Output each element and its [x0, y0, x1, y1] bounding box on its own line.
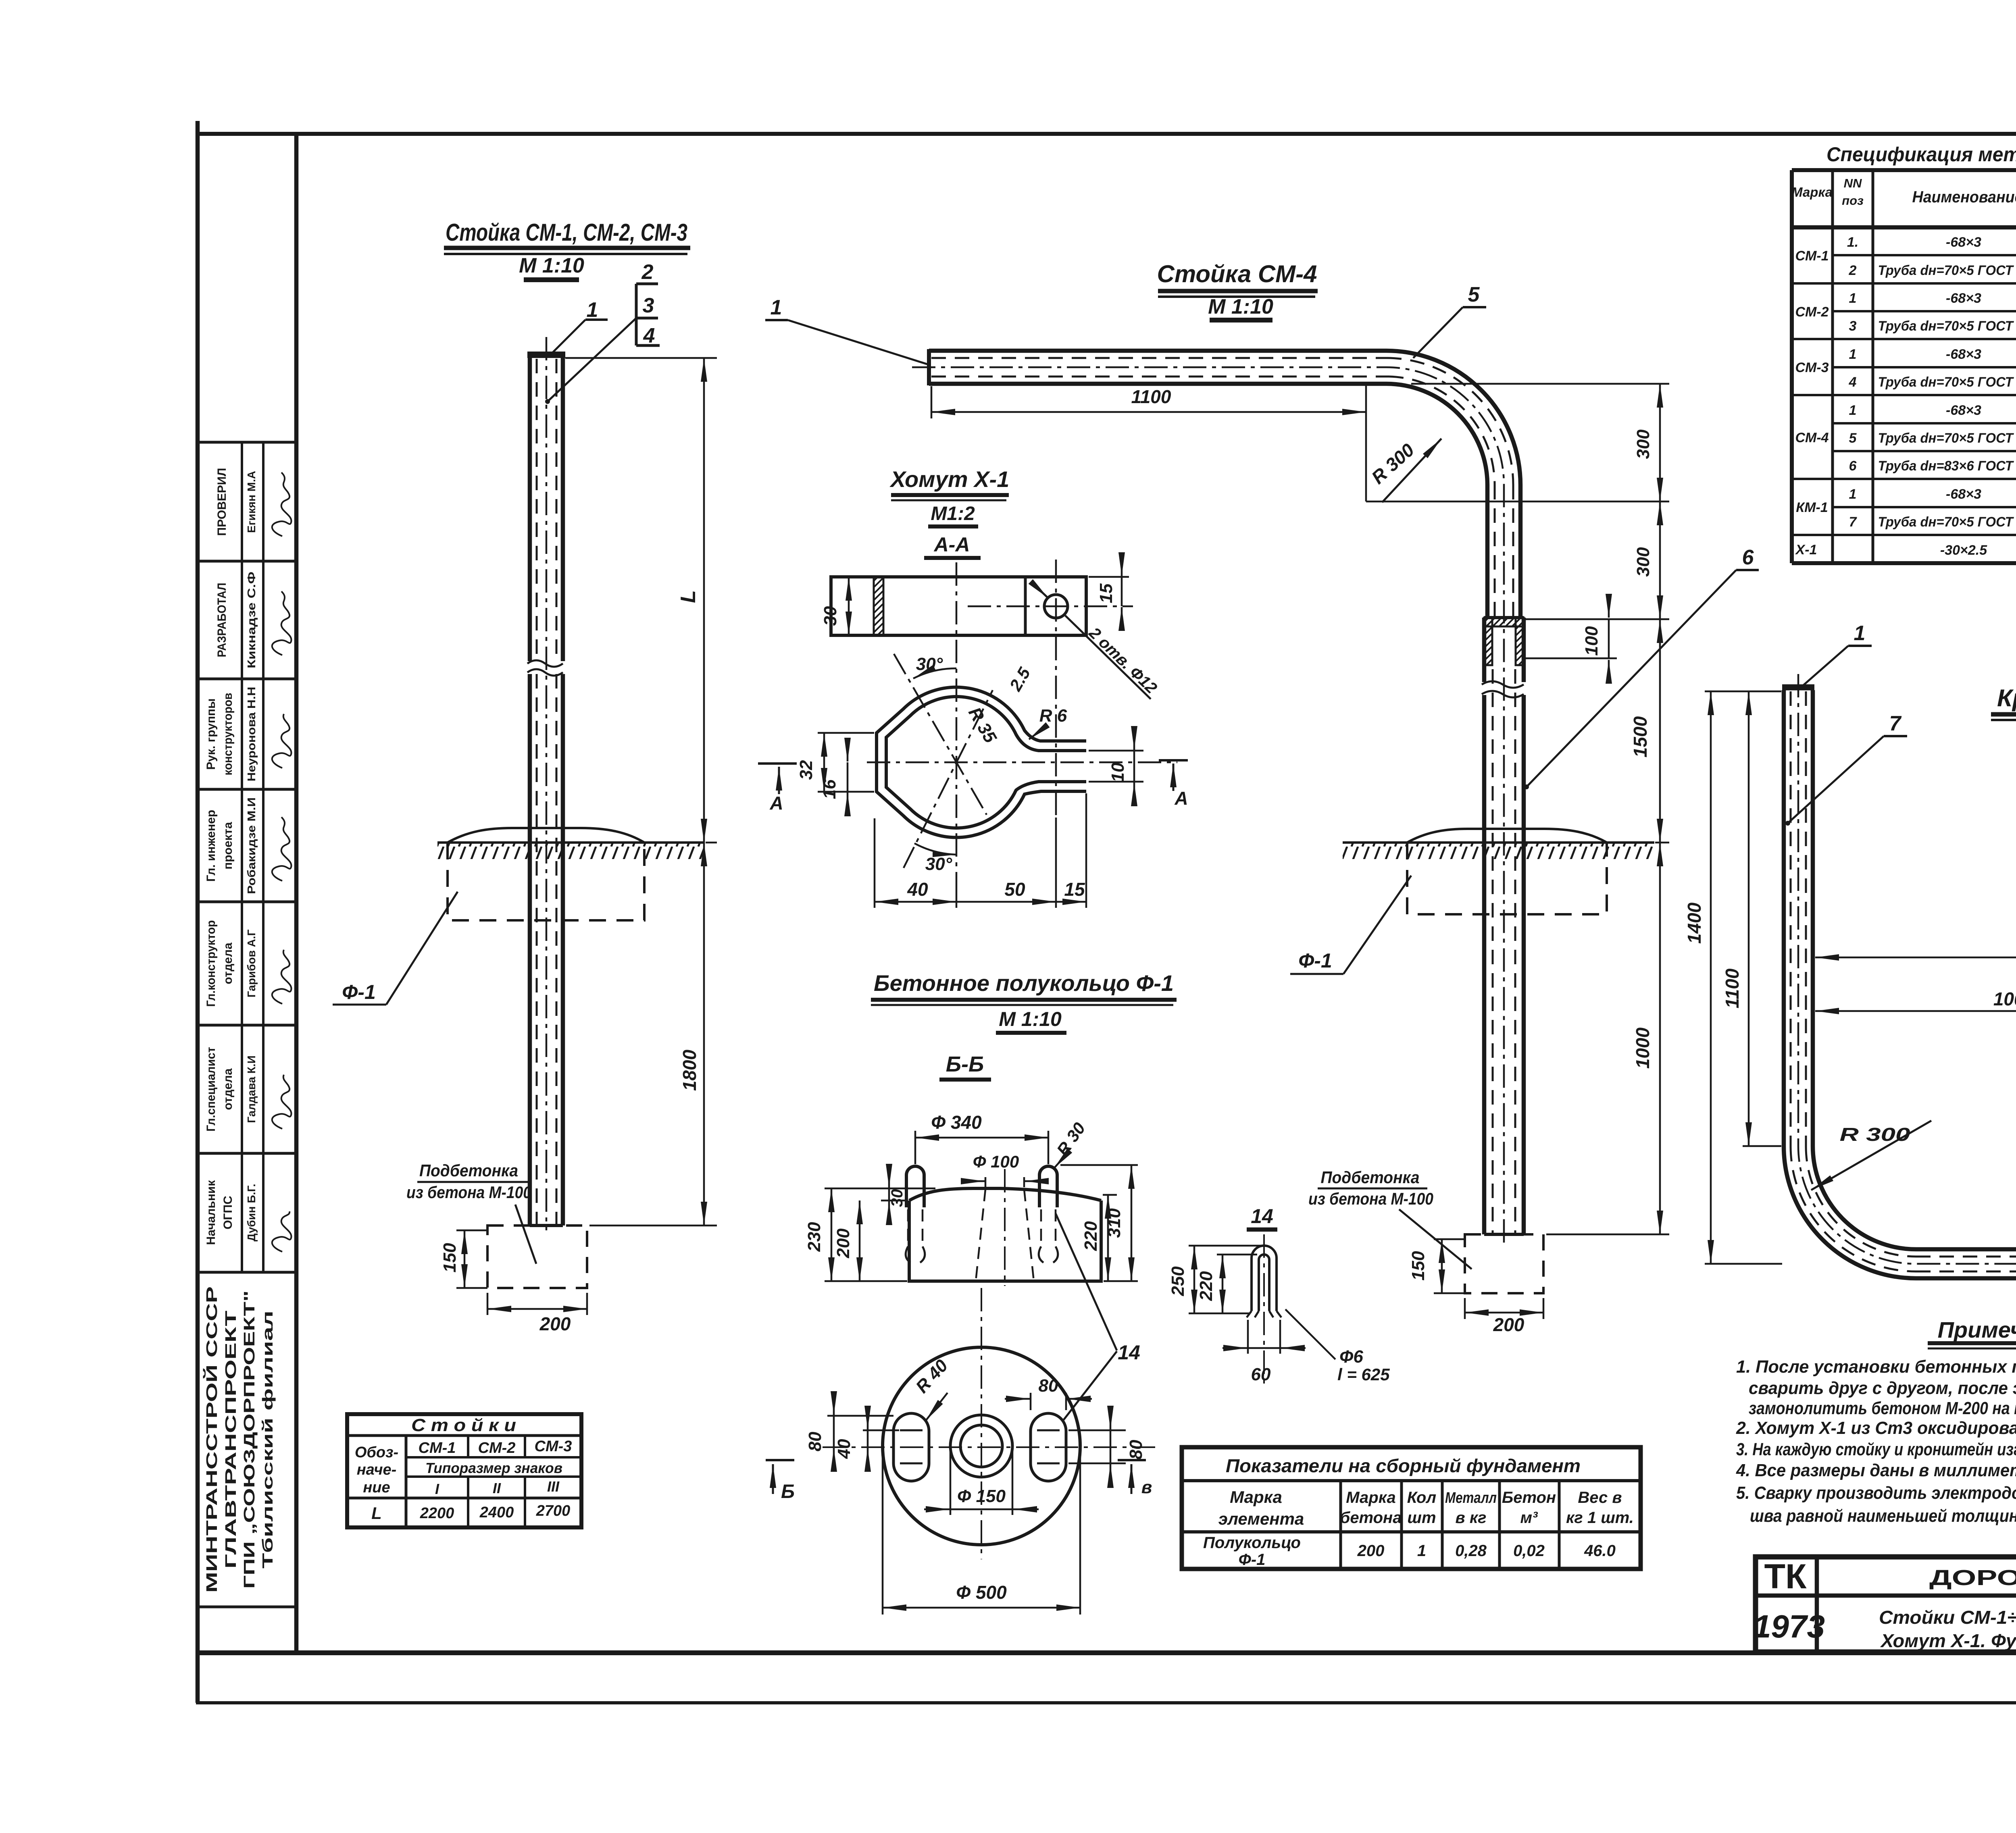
svg-text:сварить друг с другом, после э: сварить друг с другом, после этого пазы …: [1749, 1378, 2016, 1398]
svg-text:Подбетонка: Подбетонка: [419, 1161, 518, 1180]
svg-text:60: 60: [1251, 1365, 1271, 1384]
svg-text:1: 1: [1849, 487, 1857, 502]
svg-text:поз: поз: [1842, 193, 1864, 208]
svg-text:II: II: [493, 1480, 501, 1496]
svg-text:5: 5: [1468, 283, 1480, 306]
svg-text:КМ-1: КМ-1: [1796, 500, 1828, 515]
svg-text:3. На каждую стойку и кронштей: 3. На каждую стойку и кронштейн изготови…: [1736, 1440, 2016, 1459]
svg-text:3: 3: [1849, 318, 1857, 334]
svg-text:80: 80: [1126, 1440, 1146, 1459]
svg-text:2200: 2200: [420, 1505, 454, 1522]
svg-text:в кг: в кг: [1456, 1509, 1487, 1527]
svg-text:NN: NN: [1844, 176, 1862, 190]
svg-text:СМ-2: СМ-2: [1795, 304, 1829, 320]
svg-text:L: L: [371, 1504, 382, 1523]
svg-text:МИНТРАНССТРОЙ СССР: МИНТРАНССТРОЙ СССР: [202, 1286, 221, 1593]
svg-text:Ф 100: Ф 100: [973, 1152, 1019, 1171]
svg-text:Тбилисский филиал: Тбилисский филиал: [259, 1311, 276, 1569]
svg-text:Кронштейн КМ-1: Кронштейн КМ-1: [1997, 685, 2016, 712]
svg-text:200: 200: [1493, 1314, 1524, 1335]
svg-text:R 6: R 6: [1039, 706, 1067, 726]
svg-text:Труба dн=70×5 ГОСТ 8732-70: Труба dн=70×5 ГОСТ 8732-70: [1878, 318, 2016, 334]
svg-text:1: 1: [1854, 622, 1866, 645]
svg-text:Б-Б: Б-Б: [946, 1052, 984, 1076]
svg-text:Ф 500: Ф 500: [956, 1582, 1007, 1603]
svg-text:3: 3: [643, 294, 654, 317]
svg-text:7: 7: [1849, 514, 1858, 530]
svg-text:СМ-3: СМ-3: [535, 1438, 572, 1455]
svg-text:СМ-4: СМ-4: [1795, 430, 1829, 445]
svg-text:Вес в: Вес в: [1578, 1489, 1622, 1506]
svg-text:2. Хомут Х-1 из Ст3 оксидир: 2. Хомут Х-1 из Ст3 оксидировать.: [1736, 1418, 2016, 1438]
svg-text:5. Сварку производить электрод: 5. Сварку производить электродом Э42 ГОС…: [1736, 1483, 2016, 1503]
svg-text:ние: ние: [363, 1479, 390, 1496]
svg-text:150: 150: [1408, 1251, 1428, 1281]
svg-text:ДОРОЖНЫЕ ЗНАКИ: ДОРОЖНЫЕ ЗНАКИ: [1929, 1566, 2016, 1590]
svg-text:-68×3: -68×3: [1946, 487, 1981, 502]
svg-text:230: 230: [804, 1222, 824, 1252]
svg-text:Металл: Металл: [1445, 1490, 1497, 1506]
svg-text:2 отв. Ф12: 2 отв. Ф12: [1085, 624, 1160, 697]
svg-text:м³: м³: [1520, 1509, 1539, 1527]
svg-text:I: I: [435, 1481, 439, 1497]
svg-text:Труба dн=70×5 ГОСТ 8732-70: Труба dн=70×5 ГОСТ 8732-70: [1878, 263, 2016, 278]
svg-text:Ф-1: Ф-1: [1239, 1551, 1266, 1569]
svg-text:7: 7: [1889, 712, 1902, 735]
svg-text:30: 30: [888, 1189, 906, 1207]
svg-text:1: 1: [587, 298, 598, 322]
svg-text:-68×3: -68×3: [1946, 403, 1981, 418]
svg-text:40: 40: [834, 1439, 854, 1459]
svg-text:отдела: отдела: [221, 1068, 235, 1110]
svg-text:220: 220: [1196, 1271, 1216, 1301]
svg-text:Рук. группы: Рук. группы: [204, 698, 218, 770]
svg-text:R 30: R 30: [1053, 1119, 1089, 1159]
svg-text:Б: Б: [781, 1481, 795, 1502]
svg-text:Спецификация металла Ст 3 ГОС: Спецификация металла Ст 3 ГОСТ 380-71: [1826, 143, 2016, 166]
svg-text:1973: 1973: [1753, 1608, 1825, 1644]
svg-text:1: 1: [1849, 291, 1857, 306]
svg-text:300: 300: [1633, 429, 1653, 459]
svg-text:Кикнадзе С.Ф: Кикнадзе С.Ф: [245, 572, 258, 668]
svg-text:Неуронова Н.Н: Неуронова Н.Н: [245, 687, 258, 782]
svg-text:150: 150: [440, 1243, 460, 1273]
svg-text:Ф-1: Ф-1: [342, 981, 376, 1003]
svg-text:14: 14: [1251, 1205, 1273, 1228]
svg-text:Марка: Марка: [1346, 1489, 1396, 1506]
svg-text:0,28: 0,28: [1455, 1542, 1487, 1560]
svg-text:46.0: 46.0: [1584, 1542, 1616, 1560]
svg-text:6: 6: [1849, 458, 1857, 474]
svg-text:М 1:10: М 1:10: [999, 1008, 1062, 1030]
svg-text:-68×3: -68×3: [1946, 347, 1981, 362]
svg-text:R 300: R 300: [1840, 1124, 1911, 1145]
svg-text:4: 4: [1849, 375, 1857, 390]
svg-text:А: А: [1174, 788, 1188, 809]
svg-text:2: 2: [641, 260, 654, 284]
svg-text:Наименование: Наименование: [1912, 188, 2016, 206]
svg-text:1100: 1100: [1131, 386, 1171, 407]
svg-text:1000: 1000: [1993, 988, 2016, 1009]
svg-text:2.5: 2.5: [1006, 664, 1034, 694]
svg-text:Марка: Марка: [1791, 185, 1833, 200]
svg-text:элемента: элемента: [1218, 1509, 1304, 1528]
svg-text:кг 1 шт.: кг 1 шт.: [1566, 1509, 1634, 1527]
svg-text:300: 300: [1633, 547, 1653, 577]
svg-text:Гл. инженер: Гл. инженер: [204, 810, 218, 882]
svg-text:4. Все размеры даны в миллимет: 4. Все размеры даны в миллиметрах.: [1736, 1461, 2016, 1480]
svg-text:отдела: отдела: [221, 943, 235, 984]
svg-text:А: А: [769, 793, 783, 814]
svg-text:1500: 1500: [1630, 716, 1651, 757]
svg-text:проекта: проекта: [221, 822, 235, 870]
svg-text:Стойка СМ-1, СМ-2, СМ-3: Стойка СМ-1, СМ-2, СМ-3: [446, 219, 687, 246]
svg-text:1: 1: [771, 296, 782, 319]
svg-text:С т о й к и: С т о й к и: [411, 1415, 516, 1435]
svg-text:100: 100: [1582, 626, 1602, 656]
svg-text:Робакидзе М.И: Робакидзе М.И: [245, 797, 258, 894]
svg-text:4: 4: [643, 324, 655, 347]
svg-text:Галдава К.И: Галдава К.И: [245, 1055, 258, 1123]
svg-text:Примечания: Примечания: [1938, 1317, 2016, 1342]
svg-text:шва равной наименьшей толщине: шва равной наименьшей толщине свариваемы…: [1750, 1506, 2016, 1526]
svg-text:бетона: бетона: [1340, 1509, 1402, 1527]
svg-text:1100: 1100: [1722, 968, 1743, 1008]
svg-text:Труба dн=70×5 ГОСТ 8732-70: Труба dн=70×5 ГОСТ 8732-70: [1878, 514, 2016, 530]
svg-text:из бетона М-100: из бетона М-100: [1308, 1189, 1433, 1208]
svg-text:наче-: наче-: [357, 1461, 397, 1478]
svg-text:220: 220: [1081, 1221, 1101, 1251]
svg-text:5: 5: [1849, 431, 1857, 446]
svg-text:Начальник: Начальник: [204, 1180, 218, 1245]
svg-text:2: 2: [1849, 263, 1857, 278]
svg-text:-30×2.5: -30×2.5: [1940, 543, 1987, 558]
svg-text:Обоз-: Обоз-: [355, 1444, 398, 1461]
svg-text:Кол: Кол: [1407, 1489, 1437, 1506]
svg-text:2700: 2700: [536, 1502, 571, 1519]
svg-text:200: 200: [539, 1313, 571, 1334]
svg-text:А-А: А-А: [933, 533, 970, 556]
svg-text:1: 1: [1849, 347, 1857, 362]
svg-text:1: 1: [1849, 403, 1857, 418]
svg-text:конструкторов: конструкторов: [221, 693, 235, 776]
svg-text:III: III: [547, 1478, 560, 1495]
svg-text:6: 6: [1742, 546, 1754, 569]
svg-text:Егикян М.А: Егикян М.А: [245, 471, 258, 533]
svg-text:М 1:10: М 1:10: [1208, 295, 1273, 318]
svg-text:Труба dн=83×6 ГОСТ 8732-70: Труба dн=83×6 ГОСТ 8732-70: [1878, 458, 2016, 474]
svg-text:14: 14: [1118, 1341, 1140, 1364]
svg-text:15: 15: [1096, 583, 1116, 603]
svg-text:из бетона М-100: из бетона М-100: [406, 1183, 531, 1202]
svg-text:Стойки СМ-1÷СМ-4. Кронштейн: Стойки СМ-1÷СМ-4. Кронштейн КМ-1.: [1879, 1607, 2016, 1628]
svg-text:Марка: Марка: [1230, 1488, 1282, 1506]
svg-text:СМ-1: СМ-1: [419, 1440, 456, 1456]
svg-text:30°: 30°: [916, 654, 943, 674]
svg-text:-68×3: -68×3: [1946, 291, 1981, 306]
svg-text:15: 15: [1064, 879, 1085, 900]
svg-text:Показатели на сборный фундам: Показатели на сборный фундамент: [1226, 1455, 1581, 1476]
svg-text:L: L: [677, 590, 700, 603]
svg-text:l = 625: l = 625: [1337, 1365, 1390, 1384]
svg-text:1. После установки бетонных по: 1. После установки бетонных полуколец Ф-…: [1736, 1357, 2016, 1377]
svg-text:1400: 1400: [1684, 902, 1705, 944]
svg-text:16: 16: [820, 779, 839, 799]
svg-text:Ф-1: Ф-1: [1298, 949, 1332, 972]
svg-text:10: 10: [1108, 762, 1128, 782]
svg-text:Ф 340: Ф 340: [931, 1112, 982, 1133]
svg-text:50: 50: [1004, 879, 1025, 900]
svg-text:ОГПС: ОГПС: [221, 1196, 235, 1230]
svg-text:80: 80: [805, 1431, 825, 1451]
svg-text:Бетонное полукольцо Ф-1: Бетонное полукольцо Ф-1: [874, 970, 1174, 996]
svg-text:М1:2: М1:2: [931, 503, 975, 524]
svg-text:Полукольцо: Полукольцо: [1203, 1534, 1301, 1552]
svg-text:Хомут Х-1: Хомут Х-1: [889, 466, 1010, 492]
svg-text:ПРОВЕРИЛ: ПРОВЕРИЛ: [215, 468, 229, 536]
svg-text:250: 250: [1168, 1266, 1188, 1296]
svg-text:-68×3: -68×3: [1946, 235, 1981, 250]
svg-text:Бетон: Бетон: [1502, 1489, 1556, 1506]
svg-text:СМ-2: СМ-2: [478, 1440, 516, 1456]
svg-text:СМ-3: СМ-3: [1795, 360, 1829, 375]
svg-text:ГЛАВТРАНСПРОЕКТ: ГЛАВТРАНСПРОЕКТ: [223, 1311, 240, 1569]
svg-text:Типоразмер знаков: Типоразмер знаков: [425, 1460, 562, 1476]
svg-text:Х-1: Х-1: [1795, 542, 1817, 558]
svg-text:СМ-1: СМ-1: [1795, 248, 1829, 264]
svg-text:200: 200: [833, 1228, 853, 1259]
svg-text:ТК: ТК: [1764, 1557, 1807, 1596]
svg-text:1800: 1800: [679, 1049, 700, 1091]
svg-text:40: 40: [907, 879, 928, 900]
svg-text:Труба dн=70×5 ГОСТ 8732-70: Труба dн=70×5 ГОСТ 8732-70: [1878, 375, 2016, 390]
svg-text:РАЗРАБОТАЛ: РАЗРАБОТАЛ: [215, 583, 229, 657]
svg-text:1000: 1000: [1632, 1027, 1653, 1069]
svg-text:Гл.специалист: Гл.специалист: [204, 1047, 218, 1132]
svg-text:М 1:10: М 1:10: [519, 254, 584, 277]
svg-text:2400: 2400: [479, 1504, 514, 1521]
svg-text:30°: 30°: [925, 854, 952, 874]
svg-text:Стойка СМ-4: Стойка СМ-4: [1157, 260, 1317, 287]
svg-text:Ф6: Ф6: [1339, 1347, 1363, 1367]
svg-text:Подбетонка: Подбетонка: [1321, 1168, 1420, 1187]
svg-text:1: 1: [1417, 1542, 1426, 1560]
svg-text:1.: 1.: [1847, 235, 1858, 250]
svg-text:Гарибов А.Г: Гарибов А.Г: [245, 930, 258, 998]
svg-text:200: 200: [1357, 1542, 1385, 1560]
svg-text:в: в: [1141, 1477, 1152, 1497]
svg-text:Дубин Б.Г.: Дубин Б.Г.: [245, 1184, 258, 1241]
svg-text:R 300: R 300: [1367, 439, 1418, 488]
svg-text:0,02: 0,02: [1513, 1542, 1545, 1560]
svg-text:Хомут Х-1. Фундамент Ф-1.: Хомут Х-1. Фундамент Ф-1.: [1880, 1630, 2016, 1651]
svg-text:Труба dн=70×5 ГОСТ 8732-70: Труба dн=70×5 ГОСТ 8732-70: [1878, 431, 2016, 446]
svg-text:ГПИ „СОЮЗДОРПРОЕКТ": ГПИ „СОЮЗДОРПРОЕКТ": [241, 1290, 258, 1589]
svg-text:32: 32: [796, 760, 816, 780]
svg-text:замонолитить бетоном М-200 на: замонолитить бетоном М-200 на мелком зап…: [1749, 1398, 2016, 1418]
svg-text:Гл.конструктор: Гл.конструктор: [204, 920, 218, 1007]
svg-text:шт: шт: [1407, 1509, 1436, 1527]
